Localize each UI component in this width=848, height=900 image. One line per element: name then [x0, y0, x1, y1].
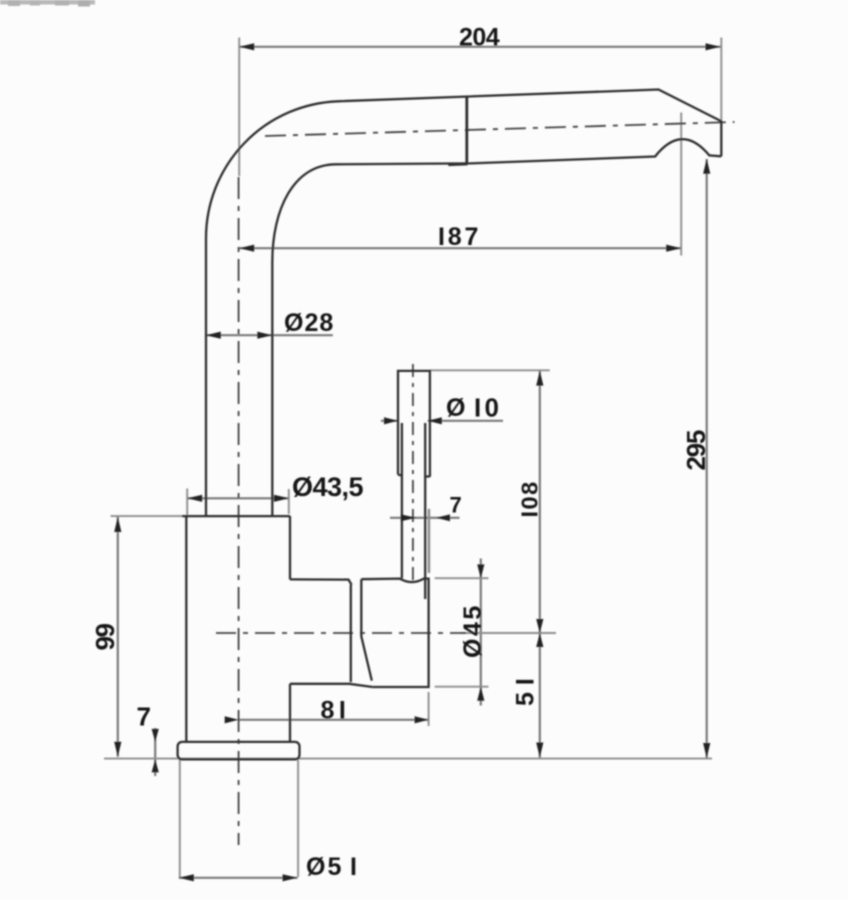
svg-text:I87: I87: [438, 223, 481, 251]
svg-text:I08: I08: [517, 480, 543, 517]
svg-text:Ø: Ø: [446, 394, 465, 422]
svg-text:I: I: [350, 853, 356, 881]
svg-text:295: 295: [681, 430, 711, 470]
svg-text:5I: 5I: [512, 671, 540, 706]
svg-text:Ø28: Ø28: [284, 309, 334, 337]
svg-text:I: I: [474, 393, 481, 423]
svg-text:0: 0: [485, 393, 499, 423]
svg-text:Ø5: Ø5: [306, 853, 343, 881]
svg-text:99: 99: [90, 624, 120, 651]
svg-text:7: 7: [137, 702, 151, 732]
svg-text:204: 204: [459, 24, 500, 52]
svg-text:Ø45: Ø45: [459, 603, 487, 658]
svg-text:Ø43,5: Ø43,5: [292, 472, 364, 502]
svg-text:7: 7: [450, 493, 462, 518]
svg-text:8I: 8I: [321, 697, 351, 725]
